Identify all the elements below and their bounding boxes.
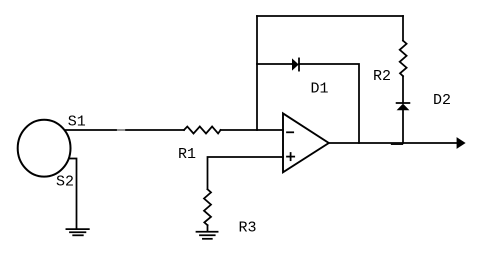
source SRC circle: [18, 120, 71, 177]
wire S1 to R1: [65, 129, 184, 131]
op-amp U1: [283, 113, 329, 172]
wire feedback top: [257, 15, 403, 17]
svg-text:R2: R2: [373, 68, 391, 85]
resistor R3: [204, 189, 211, 225]
junction thick segment at output node: [392, 143, 403, 145]
svg-text:R1: R1: [178, 146, 196, 163]
wire noninverting input: [208, 157, 284, 189]
op-amp U1 noninverting pin mark: [287, 153, 294, 160]
wire op-amp output: [329, 142, 458, 144]
resistor R1: [184, 127, 221, 134]
output arrow head: [457, 137, 466, 149]
wire D1 anode: [257, 63, 292, 65]
wire D2 to output node: [402, 110, 404, 143]
svg-text:R3: R3: [239, 220, 257, 237]
svg-text:D2: D2: [433, 92, 451, 109]
wire R3 to ground: [207, 225, 209, 231]
wire R2 to D2: [402, 76, 404, 103]
ground GND1 under S2: [66, 229, 88, 235]
ground GND2 under R3: [197, 232, 218, 239]
wire D1 cathode to output node: [299, 64, 359, 143]
wire feedback left vertical: [256, 16, 258, 130]
diode D1: [292, 58, 299, 70]
op-amp U1 inverting pin mark: [287, 131, 293, 133]
diode D2: [397, 103, 410, 110]
wire R1 to op-amp inverting input: [221, 129, 283, 131]
wire R2 top: [402, 16, 404, 41]
svg-text:D1: D1: [311, 81, 329, 98]
resistor R2: [400, 41, 407, 77]
svg-text:S2: S2: [56, 174, 74, 191]
node tick on S1 wire: [118, 129, 125, 131]
svg-text:S1: S1: [68, 114, 86, 131]
wire S2 stub to ground: [70, 159, 77, 229]
